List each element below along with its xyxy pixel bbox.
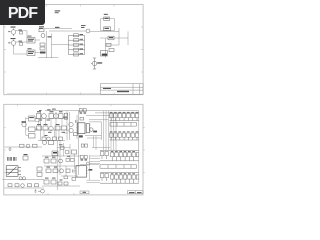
node labels left block [11, 26, 45, 39]
resistor R31 [44, 159, 49, 163]
U5 pins [76, 125, 77, 133]
resistor R36 [44, 180, 49, 184]
ladder labels [80, 34, 84, 54]
extra labels sheet1 left [8, 30, 31, 50]
bus bar row [110, 123, 137, 127]
title block 2 text [129, 192, 142, 193]
resistor R10 [49, 114, 54, 119]
transistor Q19 [90, 128, 94, 132]
right block wires sheet1 [90, 28, 128, 58]
vertical rails mid-bottom [42, 140, 80, 190]
resistor R28 [35, 184, 39, 187]
resistor R14 [55, 126, 60, 130]
resistor R16 [42, 137, 46, 141]
diode D1 [20, 32, 23, 34]
PDF badge text [0, 0, 45, 25]
transistor Q16 [65, 150, 69, 154]
capacitor C1 [104, 17, 110, 20]
row 1 labels [110, 111, 138, 114]
extra labels sheet2 midbottom [45, 144, 70, 180]
row2 labels [37, 124, 60, 125]
net label dark [40, 52, 46, 54]
transistor Q15 [43, 141, 47, 145]
IC U4 [29, 116, 36, 121]
resistor R19 [74, 133, 78, 136]
diode D2 [20, 43, 23, 45]
revision box bottom center [80, 191, 89, 194]
capacitor pair upper [81, 144, 87, 147]
loop top label [104, 14, 108, 15]
extra wires sheet2 midleft [35, 118, 68, 140]
resistor R17 [53, 137, 57, 141]
resistor R29 [49, 141, 54, 145]
title block sheet 1 [100, 84, 143, 95]
IC U2 label [28, 51, 34, 54]
transistor Q10 [47, 137, 51, 141]
transistor Q11 [69, 122, 73, 126]
diode row 1 [110, 114, 139, 121]
resistor R40 [80, 117, 84, 120]
resistor R6 [109, 49, 114, 52]
transistor Q7 [42, 114, 47, 119]
net label mid [55, 27, 60, 28]
resistor R22 [23, 156, 28, 160]
resistor R32 [51, 159, 56, 163]
resistor R23 [37, 167, 42, 171]
resistor R15 [62, 126, 67, 130]
R4 label [109, 37, 113, 38]
pair labels [81, 159, 88, 160]
title block sheet 2 [127, 191, 143, 194]
extra wires sheet2 midbottom [57, 143, 78, 176]
transistor Q14 [21, 184, 25, 188]
J1 pins [90, 125, 92, 130]
resistor R37 [51, 180, 56, 184]
relay K1 [6, 166, 21, 177]
transistor Q18 [60, 169, 64, 173]
resistor R24 [37, 172, 42, 176]
capacitor C4 [76, 120, 78, 123]
resistor R3 [40, 47, 45, 50]
sheet 1 bottom double line [7, 92, 100, 94]
node circle B [22, 177, 25, 180]
C1 label [105, 18, 109, 19]
resistor R33 [46, 169, 51, 173]
wires IC to rows [80, 136, 110, 183]
resistor R38 [58, 182, 62, 185]
sheet 2 border ticks [4, 104, 145, 195]
resistor R7 [29, 127, 36, 132]
transistor Q5 [91, 58, 97, 69]
IC U6 [52, 151, 58, 156]
resistor R26 [15, 184, 19, 187]
resistor R11 [59, 114, 64, 119]
revision box text [83, 192, 87, 193]
diode row 2 [110, 133, 139, 140]
bottom bus sheet2 [3, 180, 45, 189]
diode row 4 [100, 151, 139, 161]
resistor R1 [39, 29, 44, 32]
decoupling box row [79, 109, 86, 112]
sheet2 mid-left wires [35, 111, 68, 141]
sheet 2 border frame [4, 104, 143, 195]
connector J1 [86, 124, 89, 133]
C2 label [105, 28, 110, 29]
right edge vertical sheet2 [138, 111, 140, 183]
IC U1 [27, 38, 35, 44]
capacitor pair lower [80, 155, 87, 158]
Q4 label [81, 25, 86, 28]
U4 label [29, 117, 34, 118]
capacitor C2 [104, 27, 111, 31]
transistor Q6 [22, 122, 26, 126]
resistor R12 [37, 126, 42, 130]
capacitor C3 [64, 113, 67, 119]
sheet 1 border zone ticks [4, 5, 143, 95]
transistor Q9 [49, 126, 53, 130]
loop circuit rect [101, 19, 115, 31]
resistor R4 [108, 36, 114, 40]
extra labels sheet2 midleft [39, 109, 67, 136]
extra comps sheet2 midbottom [61, 147, 76, 181]
resistor R5 [106, 43, 111, 46]
transistor Q4 [86, 29, 90, 33]
R22 label [24, 154, 28, 155]
U6 label [53, 152, 57, 154]
resistor R21 [33, 144, 38, 147]
PDF badge [0, 0, 45, 25]
diode row 5 [100, 173, 139, 184]
bottom-left run [5, 146, 43, 148]
node circle A [19, 177, 22, 180]
left rail sheet2 [78, 111, 80, 175]
transistor Q3 [41, 34, 45, 38]
resistor R2 [40, 43, 45, 46]
box row labels [80, 112, 87, 113]
resistor R25 [8, 184, 12, 187]
motor M1 [38, 189, 44, 193]
transistor Q1 [11, 29, 16, 36]
IC U3 [101, 51, 108, 57]
transistor Q13 [26, 144, 30, 148]
top bus lines sheet2 [45, 111, 139, 140]
IC U1 label [28, 39, 34, 42]
resistor R8 [29, 134, 36, 139]
resistor R27 [28, 184, 32, 187]
title block sheet 1 text [103, 88, 129, 92]
resistor R35 [66, 169, 70, 173]
wire top label sheet1 [55, 10, 61, 13]
right rail lower [89, 155, 91, 180]
IC U7 [76, 166, 86, 177]
resistor R13 [43, 126, 48, 130]
resistor ladder rows [69, 34, 85, 56]
resistor R20 [20, 144, 25, 147]
U7 pins [75, 168, 88, 173]
resistor R9 [37, 114, 42, 119]
right vertical bundle [104, 111, 117, 150]
ground sym2 [34, 189, 37, 192]
ground sym1 [8, 147, 11, 150]
resistor R39 [64, 182, 68, 185]
U5 bottom label [79, 135, 83, 137]
resistor R34 [53, 169, 58, 173]
row 2 labels [110, 130, 138, 133]
wire top run sheet1 [42, 29, 86, 31]
resistor R30 [72, 150, 77, 154]
Q3 side label [48, 36, 52, 37]
transistor Q2 [11, 40, 16, 47]
transistor Q17 [59, 159, 63, 163]
Q5 label [97, 62, 102, 63]
row 4 labels [111, 150, 135, 153]
cluster wires [26, 118, 38, 136]
bus bar row lower [100, 165, 137, 168]
capacitor C5 [73, 170, 75, 173]
transistor Q12 [69, 128, 73, 132]
IC U5 [78, 123, 85, 134]
resistor R18 [59, 137, 63, 141]
Q19 label [93, 131, 97, 133]
transistor Q20 [86, 162, 89, 165]
Q6 label [22, 121, 27, 122]
U7 side label [89, 169, 93, 171]
U3 label [102, 54, 107, 56]
row1 labels [37, 111, 63, 112]
IC U2 [27, 50, 35, 56]
row 5 labels [111, 172, 135, 175]
dip switch S1 [8, 157, 16, 161]
right-mid wires [70, 112, 78, 140]
wires left block [14, 31, 69, 58]
sheet 1 border frame [4, 5, 143, 95]
transistor Q8 [54, 114, 59, 119]
